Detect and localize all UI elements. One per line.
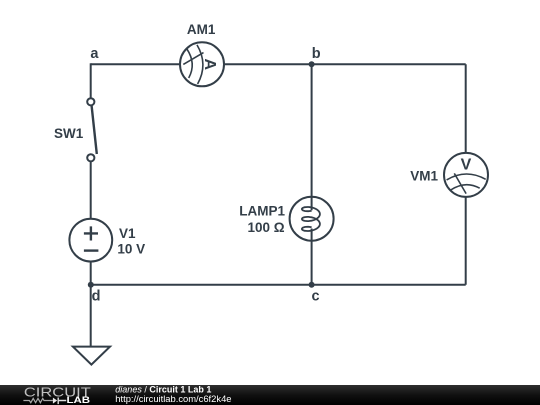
- svg-text:V1: V1: [119, 226, 136, 241]
- junction dot node c: [309, 282, 315, 288]
- wire lamp branch top: b down to lamp: [311, 64, 313, 210]
- wire: V1 bottom to node d to ground: [90, 261, 92, 347]
- wire lamp branch bottom: lamp to node c: [311, 229, 313, 285]
- svg-text:http://circuitlab.com/c6f2k4e: http://circuitlab.com/c6f2k4e: [115, 393, 231, 404]
- lamp LAMP1: [290, 197, 334, 241]
- ammeter AM1: [180, 42, 224, 86]
- svg-text:VM1: VM1: [410, 169, 438, 184]
- junction dot node d: [88, 282, 94, 288]
- svg-text:100 Ω: 100 Ω: [247, 220, 284, 235]
- logo diode: [53, 398, 57, 404]
- ground: [73, 347, 110, 365]
- logo resistor zigzag: [23, 398, 53, 402]
- voltmeter VM1: [444, 153, 488, 197]
- wire top-left: node a to ammeter: [91, 63, 181, 65]
- svg-text:10 V: 10 V: [117, 242, 145, 257]
- wire left rail: a down to switch: [90, 63, 92, 98]
- wire bottom rail: d to c to right: [91, 284, 466, 286]
- switch SW1: [87, 98, 97, 161]
- wire right rail top: to voltmeter: [465, 64, 467, 153]
- svg-text:AM1: AM1: [187, 22, 216, 37]
- svg-text:a: a: [90, 46, 99, 62]
- svg-text:V: V: [461, 156, 472, 173]
- footer bar: [0, 385, 540, 405]
- junction dot node b: [309, 61, 315, 67]
- wire right rail bottom: voltmeter to bottom rail: [465, 197, 467, 285]
- svg-text:LAB: LAB: [67, 395, 91, 405]
- svg-text:b: b: [312, 46, 321, 62]
- wire top-right: ammeter to node b to right rail: [224, 63, 466, 65]
- svg-text:LAMP1: LAMP1: [239, 203, 285, 218]
- svg-text:SW1: SW1: [54, 126, 84, 141]
- wire: switch bottom to V1 top: [90, 161, 92, 219]
- voltage source V1: [69, 219, 112, 262]
- svg-text:d: d: [92, 289, 101, 305]
- svg-text:A: A: [201, 59, 218, 71]
- svg-text:c: c: [312, 288, 320, 304]
